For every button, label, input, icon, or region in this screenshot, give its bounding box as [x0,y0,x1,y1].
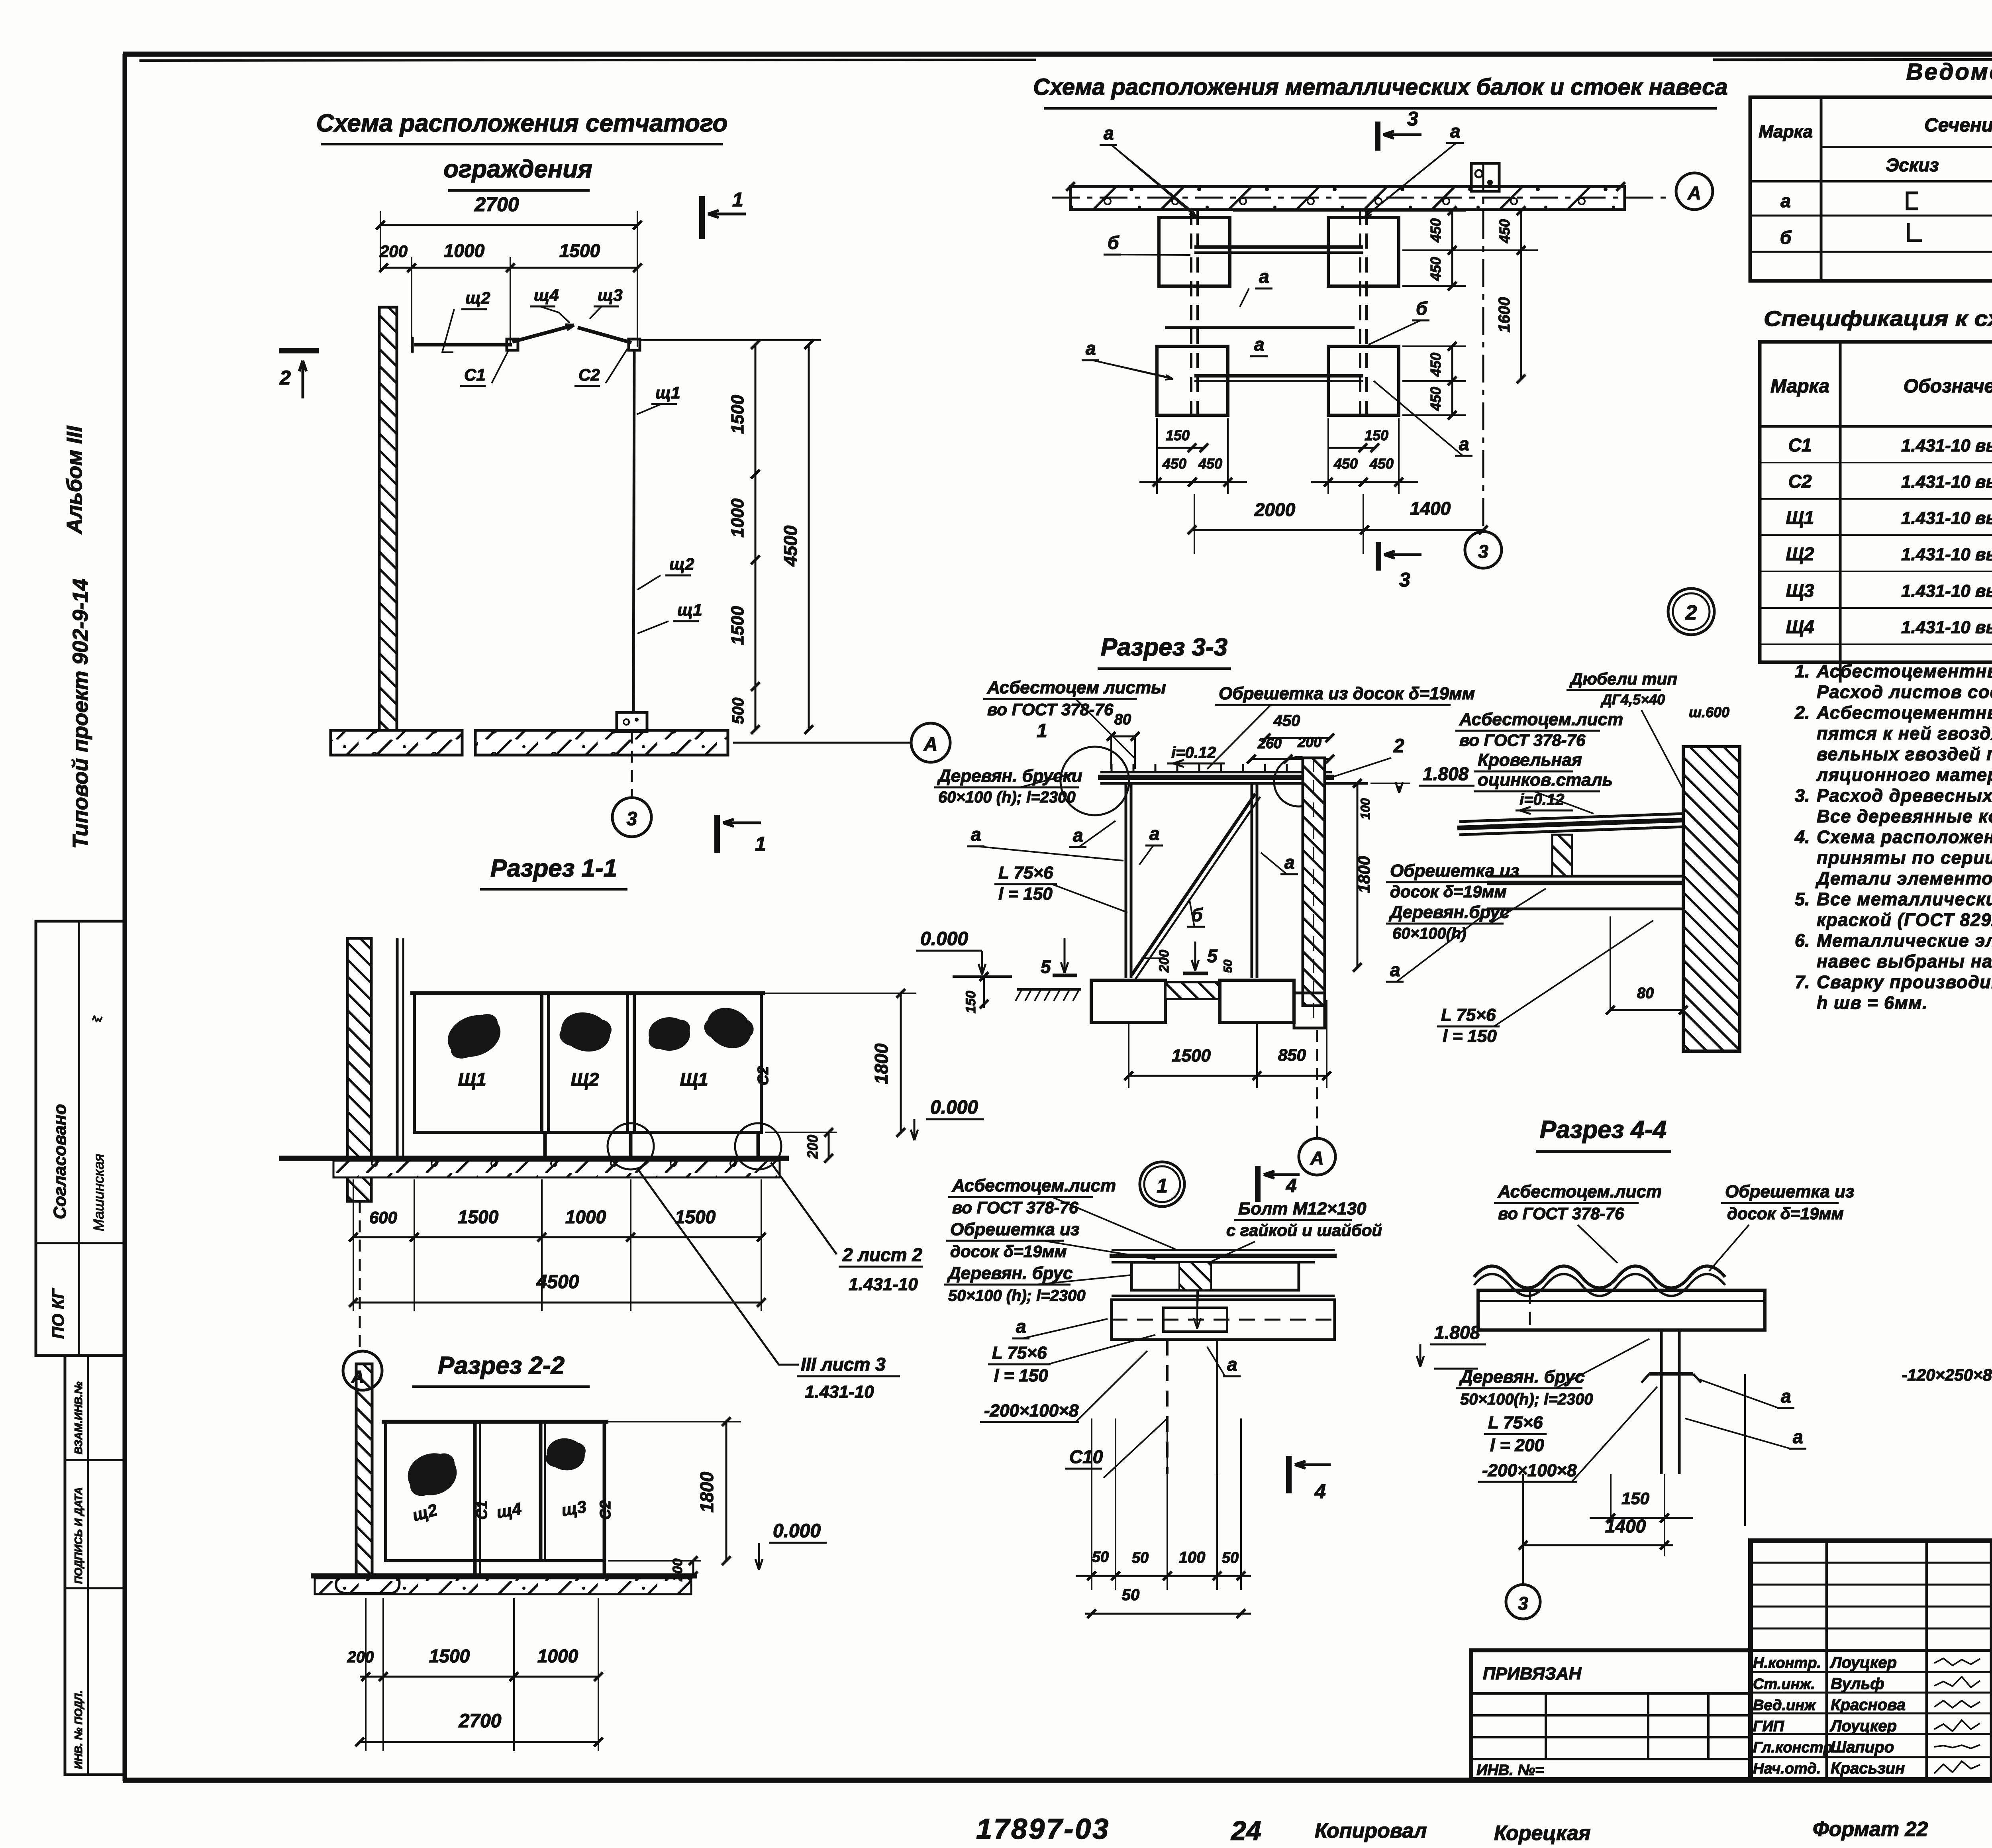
svg-text:1.808: 1.808 [1423,763,1469,784]
svg-text:Разрез 3-3: Разрез 3-3 [1101,634,1227,661]
svg-text:Асбестоцем.лист: Асбестоцем.лист [1459,710,1623,729]
svg-text:С1: С1 [1788,435,1812,455]
svg-text:260: 260 [1257,735,1282,751]
svg-text:Болт М12×130: Болт М12×130 [1238,1199,1367,1218]
svg-text:3: 3 [1518,1593,1528,1614]
svg-text:Согласовано: Согласовано [50,1104,70,1219]
svg-text:Щ2: Щ2 [571,1069,599,1090]
svg-text:Асбестоцементные листы приня: Асбестоцементные листы приняты по ГОСТ 3… [1816,661,1992,681]
svg-text:450: 450 [1427,257,1444,281]
svg-text:щ2: щ2 [465,288,490,307]
svg-text:Обрешетка из: Обрешетка из [1725,1182,1854,1201]
svg-text:а: а [1259,266,1269,287]
svg-text:60×100(h): 60×100(h) [1392,925,1467,942]
svg-text:щ2: щ2 [669,555,694,573]
svg-text:50×100 (h); l=2300: 50×100 (h); l=2300 [948,1287,1086,1305]
svg-text:l = 150: l = 150 [1443,1026,1497,1046]
svg-text:1500: 1500 [429,1646,470,1666]
svg-text:б: б [1416,298,1428,319]
svg-text:1.: 1. [1795,661,1810,681]
svg-text:ВЗАМ.ИНВ.№: ВЗАМ.ИНВ.№ [73,1381,84,1454]
svg-text:Разрез 2-2: Разрез 2-2 [438,1352,565,1379]
svg-text:а: а [1073,825,1083,846]
svg-text:1800: 1800 [696,1471,717,1513]
svg-text:i=0.12: i=0.12 [1171,744,1216,761]
svg-text:Сечение: Сечение [1924,115,1992,136]
svg-text:150: 150 [1621,1489,1649,1508]
svg-text:1.431-10 вып. 2: 1.431-10 вып. 2 [1901,618,1992,637]
svg-text:4: 4 [1314,1480,1326,1503]
svg-text:а: а [1450,121,1461,141]
svg-text:ПО КГ: ПО КГ [49,1288,67,1339]
svg-text:во ГОСТ 378-76: во ГОСТ 378-76 [987,700,1114,719]
svg-text:200: 200 [670,1559,685,1582]
svg-text:200: 200 [347,1648,374,1666]
svg-text:Гл.констр: Гл.констр [1753,1739,1833,1756]
svg-text:вельных гвоздей подкладывает: вельных гвоздей подкладывается шайбы, вы… [1817,744,1992,764]
svg-text:А: А [1310,1148,1323,1168]
svg-text:ГИП: ГИП [1753,1718,1784,1735]
svg-text:Краснова: Краснова [1831,1696,1906,1714]
svg-text:1000: 1000 [565,1206,606,1227]
svg-text:200: 200 [379,242,408,261]
svg-text:ограждения: ограждения [443,155,592,183]
svg-text:а: а [1149,823,1160,844]
svg-text:1.808: 1.808 [1434,1322,1480,1343]
svg-text:200: 200 [1157,950,1172,973]
svg-text:а: а [1104,123,1114,143]
svg-text:450: 450 [1427,218,1444,243]
svg-text:600: 600 [369,1208,397,1227]
svg-text:С1: С1 [474,1501,490,1520]
svg-text:Щ1: Щ1 [1786,507,1814,528]
svg-text:2: 2 [1393,736,1404,757]
svg-text:а: а [1086,338,1096,359]
svg-text:Детали элементов ограждения: Детали элементов ограждения даны в серии… [1815,868,1992,889]
svg-text:50×100(h); l=2300: 50×100(h); l=2300 [1460,1391,1593,1408]
svg-text:Вульф: Вульф [1831,1675,1884,1693]
svg-text:ш.600: ш.600 [1689,704,1729,720]
svg-text:Ведомость: Ведомость [1906,59,1992,85]
svg-text:ИНВ. № ПОДЛ.: ИНВ. № ПОДЛ. [73,1691,84,1769]
svg-text:1: 1 [1037,720,1047,742]
svg-text:Дюбели тип: Дюбели тип [1569,669,1677,688]
svg-text:3.: 3. [1795,785,1810,806]
svg-text:щ4: щ4 [534,286,559,304]
svg-text:краской (ГОСТ 8292-75) по: краской (ГОСТ 8292-75) по огрунтовке. [1817,910,1992,930]
svg-text:Марка: Марка [1759,122,1813,141]
svg-text:С2: С2 [1788,471,1812,492]
svg-text:Щ3: Щ3 [1786,580,1814,601]
svg-text:-200×100×8: -200×100×8 [1482,1461,1577,1480]
svg-text:Обрешетка из досок δ=19мм: Обрешетка из досок δ=19мм [1219,684,1475,703]
svg-text:1.431-10 вып. 2: 1.431-10 вып. 2 [1901,472,1992,492]
svg-text:2 лист 2: 2 лист 2 [842,1244,922,1265]
svg-text:1400: 1400 [1410,498,1451,519]
svg-text:100: 100 [1179,1549,1206,1566]
svg-text:50: 50 [1221,959,1235,973]
svg-text:5.: 5. [1795,889,1810,909]
svg-text:а: а [1284,852,1295,873]
svg-text:С2: С2 [755,1066,772,1086]
svg-text:приняты по серии 1.431-10 в: приняты по серии 1.431-10 вып. 2. [1817,847,1992,868]
svg-text:-200×100×8: -200×100×8 [984,1401,1079,1420]
svg-text:100: 100 [1358,798,1372,820]
svg-text:450: 450 [1369,455,1394,472]
svg-text:с гайкой и шайбой: с гайкой и шайбой [1226,1221,1382,1240]
svg-text:150: 150 [963,991,978,1014]
svg-text:17897-03: 17897-03 [976,1813,1110,1845]
svg-text:L 75×6: L 75×6 [992,1343,1047,1363]
svg-text:Щ1: Щ1 [680,1069,708,1090]
svg-text:досок δ=19мм: досок δ=19мм [1727,1204,1844,1223]
svg-text:450: 450 [1162,455,1186,472]
svg-text:Обрешетка из: Обрешетка из [950,1220,1079,1239]
svg-text:5: 5 [1041,956,1051,977]
svg-text:80: 80 [1637,985,1654,1002]
svg-text:2: 2 [279,367,291,389]
svg-text:Копировал: Копировал [1315,1819,1427,1842]
svg-text:450: 450 [1198,455,1222,472]
svg-text:а: а [1781,1386,1791,1407]
svg-text:50: 50 [1132,1550,1149,1566]
svg-text:Эскиз: Эскиз [1886,155,1939,175]
svg-text:Корецкая: Корецкая [1494,1822,1591,1845]
svg-text:ИНВ. №=: ИНВ. №= [1476,1762,1544,1779]
svg-text:Щ4: Щ4 [1786,616,1814,637]
svg-text:450: 450 [1496,219,1513,243]
svg-text:ПРИВЯЗАН: ПРИВЯЗАН [1483,1664,1582,1683]
svg-text:L 75×6: L 75×6 [998,863,1053,883]
svg-text:Все деревянные конструкции окр: Все деревянные конструкции окрасить масл… [1817,806,1992,826]
svg-text:1: 1 [1157,1175,1168,1197]
svg-text:Лоуцкер: Лоуцкер [1829,1717,1897,1735]
svg-text:щ3: щ3 [598,286,623,304]
svg-text:щ1: щ1 [677,600,702,619]
svg-text:во ГОСТ 378-76: во ГОСТ 378-76 [1498,1204,1624,1223]
svg-text:Н.контр.: Н.контр. [1753,1655,1821,1671]
svg-text:Асбестоцем.лист: Асбестоцем.лист [952,1176,1116,1195]
svg-text:ДГ4,5×40: ДГ4,5×40 [1600,691,1665,708]
svg-text:Все металлические конструкци: Все металлические конструкции покрасить … [1817,889,1992,909]
svg-text:1500: 1500 [458,1206,499,1227]
svg-text:2000: 2000 [1254,499,1296,520]
svg-text:Обрешетка из: Обрешетка из [1390,861,1519,881]
svg-text:Сварку производить электрода: Сварку производить электродами типа Э-42… [1817,972,1992,992]
svg-text:200: 200 [804,1135,821,1159]
svg-text:досок δ=19мм: досок δ=19мм [950,1242,1067,1261]
svg-text:С2: С2 [578,365,600,384]
svg-text:6.: 6. [1795,930,1810,951]
svg-text:850: 850 [1278,1046,1306,1064]
svg-text:4: 4 [1286,1175,1297,1197]
svg-text:Кровельная: Кровельная [1478,750,1582,770]
svg-text:50: 50 [1222,1550,1239,1566]
svg-text:б: б [1108,232,1120,253]
svg-text:Лоуцкер: Лоуцкер [1829,1654,1897,1671]
svg-text:Металлические элементы к схе: Металлические элементы к схеме расположе… [1817,930,1992,951]
svg-text:а: а [1793,1426,1803,1447]
svg-text:оцинков.сталь: оцинков.сталь [1478,770,1613,790]
svg-text:б: б [1780,227,1792,248]
svg-text:450: 450 [1333,455,1358,472]
svg-text:4500: 4500 [780,525,801,567]
svg-text:1600: 1600 [1496,297,1513,333]
svg-text:Шапиро: Шапиро [1831,1738,1894,1756]
svg-text:Расход древесных материалов: Расход древесных материалов составляет –… [1817,785,1992,806]
svg-text:60×100 (h); l=2300: 60×100 (h); l=2300 [938,789,1076,806]
svg-text:А: А [1687,182,1701,203]
svg-text:2: 2 [1685,601,1697,624]
svg-text:Марка: Марка [1770,376,1829,397]
svg-text:Деревян. брус: Деревян. брус [947,1263,1072,1283]
svg-text:3: 3 [1407,108,1418,130]
svg-text:L 75×6: L 75×6 [1441,1005,1496,1025]
svg-text:навес выбраны на листе КМ1: навес выбраны на листе КМ1. [1817,951,1992,971]
svg-text:4500: 4500 [536,1271,579,1293]
svg-text:Деревян. бруски: Деревян. бруски [937,766,1082,786]
svg-text:а: а [1780,190,1791,211]
svg-text:1000: 1000 [444,240,485,261]
svg-text:1500: 1500 [728,606,747,645]
svg-text:0.000: 0.000 [773,1520,821,1542]
svg-text:1: 1 [732,188,743,211]
svg-text:l = 200: l = 200 [1490,1436,1544,1455]
svg-text:24: 24 [1230,1816,1261,1846]
svg-text:1400: 1400 [1605,1516,1646,1536]
svg-text:3: 3 [1478,541,1488,562]
svg-text:2700: 2700 [459,1711,502,1732]
svg-text:-120×250×8: -120×250×8 [1902,1365,1992,1384]
svg-text:Схема расположения сетчатого: Схема расположения сетчатого [316,110,728,137]
svg-text:50: 50 [1122,1586,1140,1604]
svg-text:а: а [1390,959,1400,980]
svg-text:ляционного материала.: ляционного материала. [1816,765,1992,785]
svg-text:ПОДПИСЬ И ДАТА: ПОДПИСЬ И ДАТА [73,1487,84,1584]
svg-text:III лист 3: III лист 3 [801,1354,886,1375]
svg-text:0.000: 0.000 [920,928,968,950]
svg-text:1.431-10 вып. 2: 1.431-10 вып. 2 [1901,581,1992,601]
svg-text:Машинская: Машинская [90,1154,107,1231]
svg-text:С2: С2 [597,1501,614,1520]
svg-text:1.431-10 вып. 2: 1.431-10 вып. 2 [1901,508,1992,528]
svg-text:Обозначение: Обозначение [1904,376,1992,397]
svg-text:а: а [971,824,981,845]
svg-text:1: 1 [755,833,766,855]
svg-text:А: А [923,734,938,755]
svg-text:Разрез 4-4: Разрез 4-4 [1540,1116,1667,1144]
svg-text:450: 450 [1273,712,1300,730]
svg-text:1500: 1500 [559,240,600,261]
svg-text:450: 450 [1427,387,1444,411]
svg-text:2700: 2700 [474,193,519,216]
svg-text:0.000: 0.000 [930,1097,978,1118]
svg-text:L 75×6: L 75×6 [1488,1413,1543,1432]
svg-text:1000: 1000 [537,1646,578,1666]
svg-text:Разрез 1-1: Разрез 1-1 [490,855,617,882]
svg-text:1500: 1500 [728,395,747,434]
svg-text:3: 3 [627,808,637,830]
svg-text:150: 150 [1166,427,1190,443]
svg-text:h шв = 6мм.: h шв = 6мм. [1817,993,1928,1013]
svg-text:1.431-10 вып. 2: 1.431-10 вып. 2 [1901,436,1992,455]
svg-text:l = 150: l = 150 [998,884,1053,904]
svg-text:Красьзин: Красьзин [1831,1760,1905,1777]
svg-text:щ1: щ1 [655,383,680,402]
svg-text:Типовой проект 902-9-14: Типовой проект 902-9-14 [69,579,92,849]
svg-text:i=0.12: i=0.12 [1519,791,1564,808]
svg-text:Формат 22: Формат 22 [1813,1818,1928,1841]
svg-text:l = 150: l = 150 [994,1366,1048,1385]
svg-text:1500: 1500 [1172,1046,1211,1065]
svg-text:С1: С1 [464,365,486,384]
svg-text:Деревян.брус: Деревян.брус [1388,902,1510,922]
svg-text:Расход листов составляет 6: Расход листов составляет 6 шт. [1817,682,1992,702]
svg-text:Альбом III: Альбом III [63,426,86,535]
svg-text:а: а [1459,434,1469,454]
svg-text:Ст.инж.: Ст.инж. [1753,1676,1815,1693]
svg-text:а: а [1254,334,1265,355]
svg-text:80: 80 [1114,711,1131,728]
svg-text:во ГОСТ 378-76: во ГОСТ 378-76 [1459,731,1586,749]
svg-text:Спецификация к схеме располо: Спецификация к схеме расположения сетчат… [1764,307,1992,331]
svg-text:5: 5 [1207,946,1218,966]
svg-text:Асбестоцементные листы уклад: Асбестоцементные листы укладываются на о… [1816,702,1992,723]
svg-text:200: 200 [1297,734,1321,750]
svg-text:1800: 1800 [871,1043,892,1084]
svg-text:Щ1: Щ1 [458,1069,486,1090]
svg-text:3: 3 [1399,569,1410,591]
svg-text:а: а [1227,1354,1237,1375]
svg-text:500: 500 [729,698,747,724]
svg-text:Асбестоцем листы: Асбестоцем листы [987,678,1166,697]
svg-text:Схема расположения и узлы к: Схема расположения и узлы крепления сетч… [1817,827,1992,847]
svg-text:2.: 2. [1794,702,1810,723]
svg-text:7.: 7. [1795,972,1810,992]
svg-text:А: А [351,1367,364,1387]
svg-text:1500: 1500 [675,1206,716,1227]
svg-text:С10: С10 [1069,1446,1103,1467]
svg-text:1000: 1000 [728,498,747,538]
svg-text:Щ2: Щ2 [1786,543,1814,564]
svg-text:450: 450 [1427,353,1444,377]
svg-text:4.: 4. [1794,827,1810,847]
svg-text:1.431-10 вып. 2: 1.431-10 вып. 2 [1901,545,1992,564]
svg-text:Асбестоцем.лист: Асбестоцем.лист [1498,1182,1662,1201]
svg-text:Вед.инж: Вед.инж [1753,1697,1816,1714]
svg-text:Схема расположения металлическ: Схема расположения металлических балок и… [1033,74,1728,100]
svg-text:50: 50 [1092,1549,1109,1566]
svg-text:досок δ=19мм: досок δ=19мм [1390,882,1507,901]
svg-text:Нач.отд.: Нач.отд. [1753,1760,1821,1777]
svg-text:1800: 1800 [1355,856,1373,893]
svg-text:а: а [1016,1316,1026,1337]
svg-text:1.431-10: 1.431-10 [805,1382,874,1402]
svg-text:150: 150 [1365,427,1388,443]
svg-text:1.431-10: 1.431-10 [849,1275,918,1294]
svg-text:пятся к ней гвоздями с антикор: пятся к ней гвоздями с антикоррозийной ш… [1817,723,1992,744]
